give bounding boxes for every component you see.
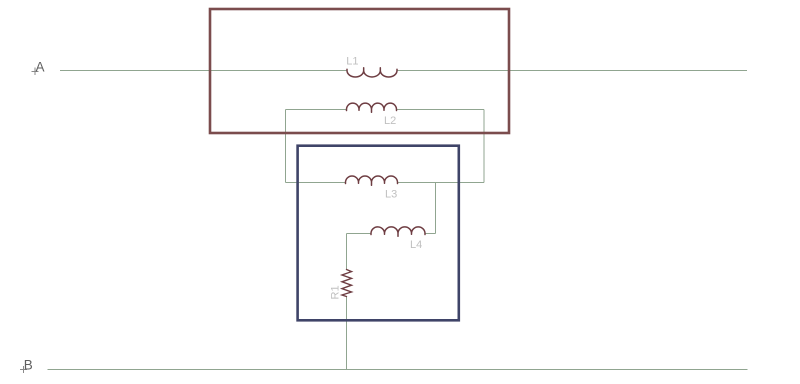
svg-text:L3: L3	[385, 189, 397, 201]
svg-text:L1: L1	[346, 56, 358, 68]
svg-text:L2: L2	[384, 115, 396, 127]
svg-text:A: A	[36, 60, 45, 75]
svg-text:R1: R1	[330, 285, 342, 299]
svg-text:L4: L4	[410, 239, 422, 251]
svg-text:B: B	[24, 358, 33, 373]
